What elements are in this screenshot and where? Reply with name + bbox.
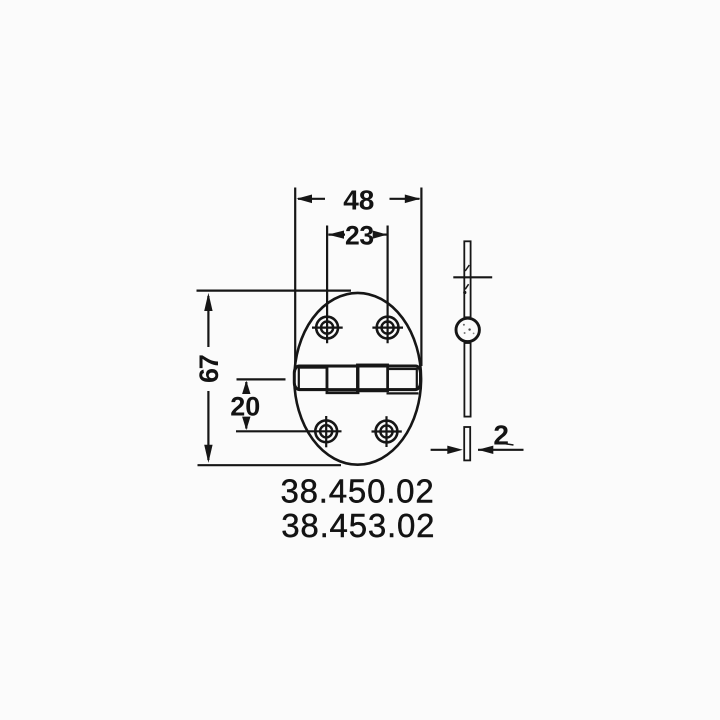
side view hole centerline: [453, 276, 492, 278]
dimension 48 extension line right: [420, 188, 422, 367]
knuckle 2 (lower leaf): [327, 366, 358, 393]
svg-text:20: 20: [230, 391, 260, 421]
side view countersink mark upper: [465, 265, 469, 271]
side view countersink mark lower: [463, 284, 468, 294]
dimension 2 label: [493, 420, 513, 451]
screw hole bottom-left: [315, 416, 337, 447]
dimension 20 label: [230, 391, 260, 421]
dimension 67 arrow down: [204, 391, 212, 463]
dimension 2 arrow right: [478, 446, 524, 454]
screw hole bottom-right: [372, 416, 402, 447]
svg-text:23: 23: [345, 220, 374, 250]
dimension 48 extension line left: [294, 188, 296, 367]
svg-text:38.450.02: 38.450.02: [280, 473, 434, 510]
dimension 20 arrow down: [242, 417, 250, 430]
side view lower leaf bar: [464, 343, 470, 417]
svg-text:2: 2: [493, 420, 509, 451]
side view upper leaf bar: [464, 241, 470, 317]
part number 38.450.02: [280, 473, 434, 510]
dimension 67 arrow up: [204, 293, 212, 347]
hinge oval body (front view): [294, 293, 421, 465]
dimension 20 extension line top: [237, 378, 286, 380]
dimension 20 extension line bottom (through bottom-left hole): [236, 430, 342, 432]
dimension 20 arrow up: [242, 381, 250, 394]
knuckle 1: [299, 368, 327, 390]
hinge barrel band: [294, 366, 420, 390]
dimension 2 arrow left: [431, 446, 463, 454]
dimension 23 arrow right: [373, 231, 388, 239]
screw hole top-right: [372, 226, 403, 344]
dimension 67 label (rotated): [194, 355, 224, 383]
dimension 23 arrow left: [328, 231, 345, 239]
leaf gap line right: [387, 392, 419, 394]
dimension 23 label: [345, 220, 374, 250]
part number 38.453.02: [281, 507, 435, 544]
knuckle 4: [388, 369, 417, 389]
dimension 48 arrow right: [390, 195, 421, 204]
side view barrel circle: [456, 318, 479, 341]
svg-text:67: 67: [194, 355, 224, 383]
dimension 48 arrow left: [296, 195, 325, 204]
svg-text:48: 48: [343, 184, 374, 215]
svg-text:38.453.02: 38.453.02: [281, 507, 435, 544]
dimension 67 extension line bottom: [198, 464, 342, 466]
dimension 67 extension line top: [197, 290, 352, 292]
dimension 48 label: [343, 184, 374, 215]
knuckle 3 (upper leaf): [357, 365, 387, 391]
screw hole top-left: [312, 226, 343, 344]
side view cross-section slab (for thickness dim): [464, 427, 470, 460]
